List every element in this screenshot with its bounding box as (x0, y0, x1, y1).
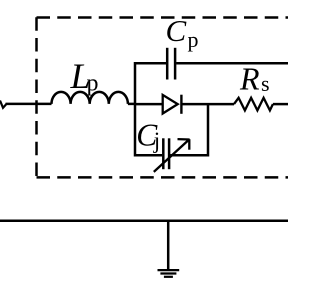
wire: top branch right (to edge) (176, 62, 288, 65)
ground (158, 270, 180, 277)
inductor Lp (52, 92, 128, 104)
wire: resistor to right edge (273, 103, 288, 106)
svg-text:C: C (166, 13, 187, 48)
wire: bottom branch left (135, 154, 162, 157)
node A: left junction vertical (134, 62, 137, 157)
wire: top branch left (135, 62, 166, 65)
wire: input lead to inductor (6, 103, 52, 106)
label Lp (70, 56, 99, 97)
dashed enclosure (device boundary) (37, 17, 289, 177)
varactor Cj plates (163, 138, 169, 169)
wire: inductor to node A (128, 103, 136, 106)
resistor Rs (zigzag) (234, 98, 273, 111)
node B: right junction vertical (207, 103, 210, 157)
svg-text:p: p (188, 27, 199, 52)
label Cj (136, 117, 160, 152)
capacitor Cp plates (167, 48, 175, 80)
wire: bottom rail (0, 219, 288, 222)
wire: diode cathode to resistor (182, 103, 235, 106)
varactor Cj arrowhead (178, 139, 190, 150)
label Cp (166, 13, 199, 52)
label Rs (239, 61, 270, 97)
svg-text:R: R (239, 61, 260, 97)
wire: node A to diode anode (135, 103, 163, 106)
svg-text:j: j (153, 128, 160, 153)
svg-text:s: s (261, 71, 270, 96)
svg-text:p: p (87, 71, 99, 97)
wire: bottom branch right (170, 154, 209, 157)
diode D (cathode bar) (180, 95, 182, 114)
wire: ground stem (167, 220, 170, 270)
wire: input lead stub (cut-off) (0, 101, 7, 108)
diode D (anode triangle) (163, 95, 178, 114)
varactor Cj arrow shaft (154, 140, 189, 172)
